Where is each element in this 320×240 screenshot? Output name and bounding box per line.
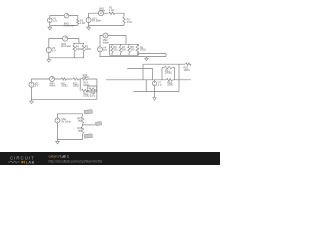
svg-text:5V 1kHz: 5V 1kHz: [92, 20, 102, 23]
svg-text:100Ω: 100Ω: [83, 95, 89, 98]
svg-text:100Ω: 100Ω: [167, 84, 173, 87]
svg-text:100Ω: 100Ω: [184, 69, 190, 72]
svg-text:LAB: LAB: [26, 159, 35, 164]
svg-text:1 V: 1 V: [158, 84, 162, 87]
svg-text:100Ω: 100Ω: [83, 84, 89, 87]
svg-text:100: 100: [130, 49, 135, 52]
svg-text:1 V: 1 V: [53, 20, 57, 23]
svg-text:5 V: 5 V: [103, 49, 107, 52]
svg-text:100Ω: 100Ω: [83, 76, 89, 79]
svg-text:100Ω: 100Ω: [85, 48, 91, 51]
svg-text:12 V: 12 V: [90, 95, 95, 98]
svg-text:Voltm: Voltm: [99, 10, 105, 13]
svg-text:100: 100: [113, 49, 118, 52]
svg-text:5 V: 5 V: [52, 49, 56, 52]
svg-text:100: 100: [122, 49, 127, 52]
svg-text:1 kΩ: 1 kΩ: [80, 22, 85, 25]
svg-text:Voltm: Voltm: [103, 42, 109, 45]
svg-text:Ammeter: Ammeter: [61, 45, 71, 48]
svg-text:100kΩ: 100kΩ: [165, 72, 172, 75]
svg-text:http://circuitlab.com/c/zy29ks: http://circuitlab.com/c/zy29ksn7nxfhz: [49, 159, 103, 163]
svg-text:1kΩ: 1kΩ: [78, 130, 83, 133]
svg-text:100Ω: 100Ω: [73, 85, 79, 88]
svg-text:1 kΩ: 1 kΩ: [127, 21, 132, 24]
svg-text:100Ω: 100Ω: [61, 85, 67, 88]
svg-text:100Ω: 100Ω: [76, 48, 82, 51]
svg-text:Amm: Amm: [50, 85, 56, 88]
svg-text:1kΩ: 1kΩ: [78, 120, 83, 123]
svg-text:cahyn / Lab 1: cahyn / Lab 1: [49, 154, 69, 158]
svg-text:100Ω: 100Ω: [140, 49, 146, 52]
svg-text:5 V: 5 V: [35, 85, 39, 88]
svg-text:1 kΩ: 1 kΩ: [109, 9, 114, 12]
svg-text:Ammeter: Ammeter: [64, 25, 74, 28]
svg-text:5V 1kHz: 5V 1kHz: [61, 120, 71, 123]
